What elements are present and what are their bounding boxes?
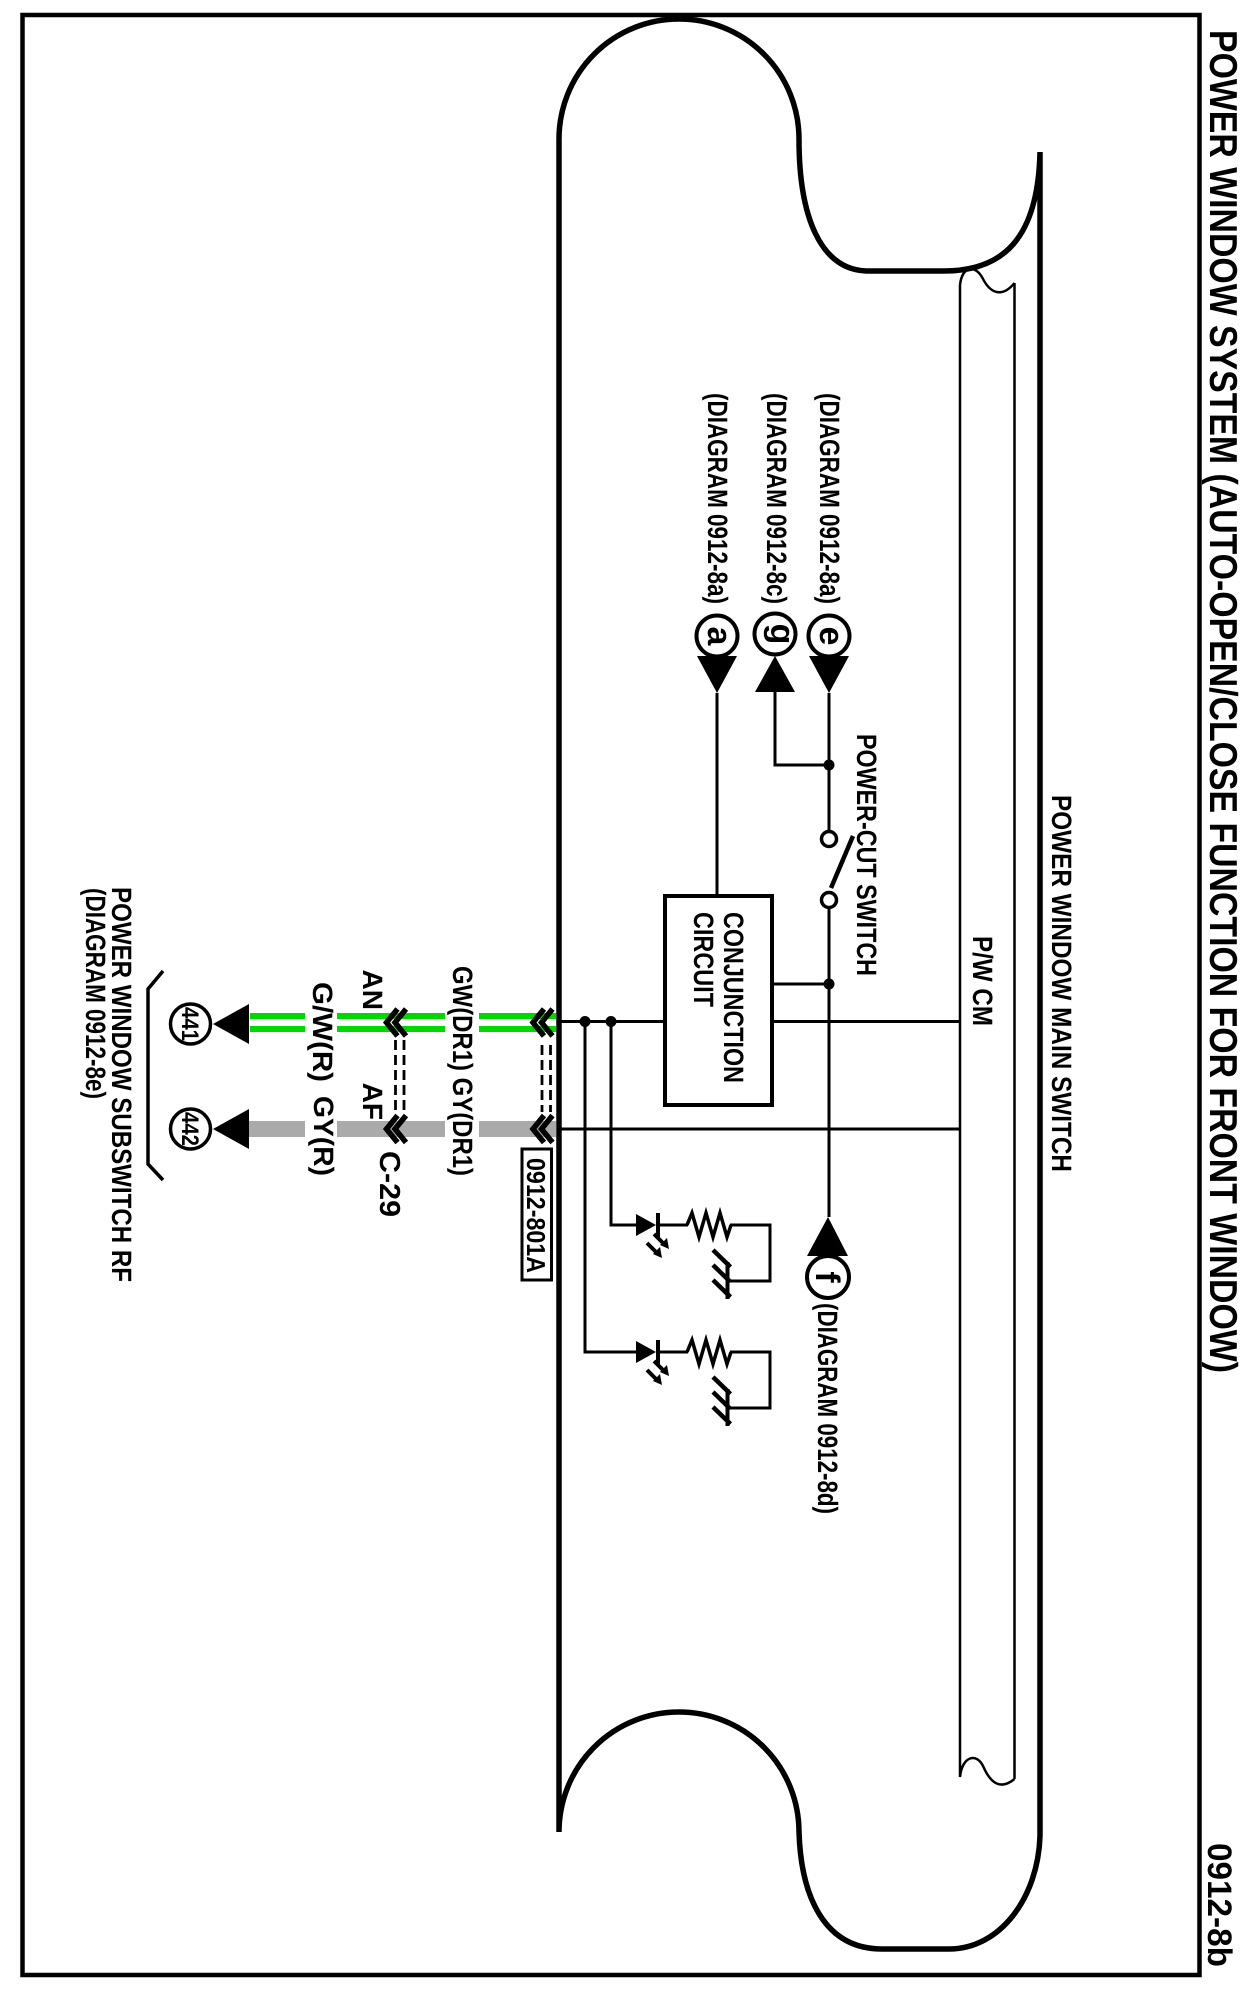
dashed link 0912-801A <box>542 1045 551 1112</box>
svg-text:C-29: C-29 <box>373 1151 405 1217</box>
junction dot led branch 1 <box>606 1016 617 1027</box>
green wire interior vertical <box>559 1020 960 1023</box>
wire switch to f <box>828 907 831 1217</box>
power-cut switch <box>822 832 854 908</box>
svg-text:(DIAGRAM 0912-8e): (DIAGRAM 0912-8e) <box>80 888 111 1099</box>
svg-text:(DIAGRAM 0912-8a): (DIAGRAM 0912-8a) <box>814 393 845 604</box>
connector e triangle <box>809 656 849 693</box>
junction dot switch wire <box>824 979 835 990</box>
0912-801A box <box>521 1149 552 1280</box>
power window main switch outline <box>559 19 1040 1949</box>
connector g triangle <box>755 656 795 692</box>
connector e circle <box>809 616 851 657</box>
bracket <box>148 971 163 1180</box>
svg-text:AN: AN <box>357 970 388 1010</box>
LED 2 <box>636 1340 669 1385</box>
chevrons 0912-801A green <box>533 1009 553 1036</box>
connector 441 circle <box>171 1004 211 1044</box>
gray wire interior vertical <box>559 1128 960 1131</box>
chevrons C-29 gray <box>387 1116 407 1143</box>
svg-text:POWER WINDOW MAIN SWITCH: POWER WINDOW MAIN SWITCH <box>1046 795 1077 1172</box>
svg-text:POWER WINDOW SYSTEM (AUTO-OPEN: POWER WINDOW SYSTEM (AUTO-OPEN/CLOSE FUN… <box>1201 30 1244 1373</box>
gray wire exterior <box>249 1121 556 1137</box>
chevrons 0912-801A gray <box>533 1116 553 1143</box>
green wire exterior double line <box>250 1016 556 1029</box>
svg-text:f: f <box>808 1271 846 1283</box>
connector a triangle <box>697 656 737 693</box>
P/W CM module strip <box>960 269 1015 1785</box>
stub junction to conjunction box <box>772 983 829 986</box>
svg-text:g: g <box>763 624 801 645</box>
resistor R2 <box>687 1340 731 1364</box>
connector 441 triangle <box>213 1004 249 1044</box>
junction dot g-e <box>824 760 835 771</box>
svg-text:442: 442 <box>176 1112 203 1146</box>
svg-text:GW(DR1) GY(DR1): GW(DR1) GY(DR1) <box>447 966 478 1176</box>
connector f triangle <box>807 1217 848 1256</box>
svg-text:(DIAGRAM 0912-8c): (DIAGRAM 0912-8c) <box>761 393 792 604</box>
junction dot led branch 2 <box>580 1016 591 1027</box>
wire e <box>828 693 831 831</box>
resistor R1 <box>687 1213 731 1237</box>
svg-text:P/W CM: P/W CM <box>967 936 998 1026</box>
svg-text:0912-801A: 0912-801A <box>521 1158 551 1273</box>
ground 1 <box>713 1250 731 1299</box>
connector g circle <box>755 614 802 655</box>
connector f circle <box>807 1256 849 1298</box>
wire led branch 2 <box>585 1022 770 1409</box>
chevrons C-29 green <box>387 1009 407 1036</box>
wire led branch 1 <box>611 1022 770 1282</box>
svg-text:441: 441 <box>176 1007 203 1041</box>
wire labels GW(DR1) GY(DR1) <box>445 962 479 1184</box>
svg-text:G/W(R): G/W(R) <box>307 982 338 1082</box>
svg-text:POWER-CUT SWITCH: POWER-CUT SWITCH <box>851 734 882 976</box>
svg-text:AF: AF <box>357 1083 388 1120</box>
wire label GY(R) <box>305 1092 339 1180</box>
svg-text:CONJUNCTION: CONJUNCTION <box>718 912 749 1083</box>
svg-text:e: e <box>812 627 850 646</box>
connector 442 triangle <box>213 1109 249 1149</box>
svg-text:CIRCUIT: CIRCUIT <box>688 912 719 1007</box>
ground 2 <box>713 1377 731 1426</box>
conjunction circuit box <box>665 896 772 1105</box>
svg-text:(DIAGRAM 0912-8d): (DIAGRAM 0912-8d) <box>812 1303 843 1514</box>
connector 442 circle <box>171 1109 211 1149</box>
LED 1 <box>636 1213 669 1258</box>
connector a circle <box>697 616 739 657</box>
dashed link C-29 <box>396 1040 405 1112</box>
wire g <box>775 692 829 765</box>
svg-text:a: a <box>700 627 738 647</box>
svg-text:0912-8b: 0912-8b <box>1200 1843 1238 1967</box>
wire a <box>716 693 719 896</box>
svg-text:GY(R): GY(R) <box>308 1096 339 1176</box>
svg-text:(DIAGRAM 0912-8a): (DIAGRAM 0912-8a) <box>702 393 733 604</box>
wire label G/W(R) <box>305 978 338 1088</box>
